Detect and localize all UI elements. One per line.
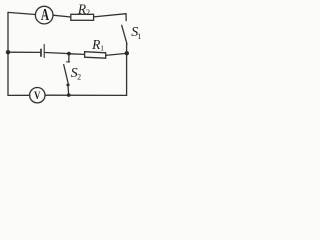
switch S1 blade bbox=[122, 25, 127, 44]
node dot S2 top bbox=[67, 52, 71, 56]
wire right vertical upper (to S1 top contact) bbox=[125, 14, 127, 21]
wire R1 to right junction bbox=[106, 54, 125, 56]
svg-text:A: A bbox=[41, 6, 50, 25]
node dot S2 bottom contact bbox=[66, 83, 69, 86]
wire right vertical lower bbox=[126, 44, 128, 95]
svg-text:2: 2 bbox=[77, 73, 81, 82]
wire battery to node bbox=[45, 53, 67, 54]
ammeter A bbox=[35, 6, 53, 24]
wire top-left to ammeter bbox=[8, 12, 35, 14]
node dot left (battery branch) bbox=[6, 50, 10, 54]
switch S2 bottom lead bbox=[67, 86, 70, 95]
node dot bottom wire bbox=[67, 93, 71, 97]
wire R2 to top-right corner bbox=[94, 14, 126, 17]
svg-text:V: V bbox=[34, 90, 41, 102]
switch S2 top contact tick bbox=[67, 61, 70, 63]
resistor R2 bbox=[71, 14, 94, 20]
switch S2 blade bbox=[64, 65, 68, 83]
svg-text:2: 2 bbox=[86, 7, 90, 17]
wire left vertical bbox=[7, 12, 9, 95]
wire bottom-left to voltmeter bbox=[8, 94, 30, 96]
resistor R1 bbox=[85, 52, 106, 59]
wire node to R1 bbox=[71, 53, 85, 56]
svg-text:1: 1 bbox=[100, 43, 104, 52]
wire middle row: left node to battery bbox=[8, 51, 40, 53]
wire ammeter to R2 bbox=[53, 15, 71, 17]
switch S2 top lead bbox=[68, 55, 70, 61]
svg-text:1: 1 bbox=[137, 32, 141, 41]
node dot S1/R1 right junction bbox=[125, 51, 129, 55]
voltmeter V bbox=[30, 88, 45, 103]
battery cell short plate bbox=[40, 49, 42, 56]
battery cell long plate bbox=[43, 44, 45, 57]
wire voltmeter to bottom-right corner bbox=[45, 94, 127, 96]
